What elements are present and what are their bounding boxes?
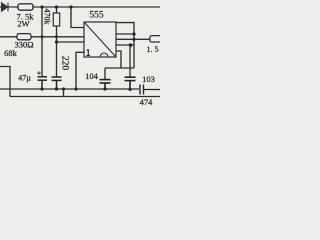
svg-text:330Ω: 330Ω bbox=[14, 40, 33, 50]
resistor R4 1.5k (clipped) bbox=[150, 36, 162, 42]
label R1 value 7.5k bbox=[17, 12, 35, 22]
svg-text:474: 474 bbox=[140, 97, 154, 107]
node junction y45 bbox=[129, 43, 133, 47]
label U1 555 bbox=[89, 11, 104, 21]
wire left edge net to lower rail bbox=[0, 67, 10, 97]
svg-text:103: 103 bbox=[142, 74, 155, 84]
wire control net down to C3 bbox=[104, 68, 106, 79]
node dot C1 ground bbox=[40, 87, 43, 90]
IC U1 555 timer box bbox=[84, 22, 116, 57]
wire output top (IC corner right then down) bbox=[116, 23, 134, 68]
node dot drop ground bbox=[62, 87, 65, 90]
label C5 value 474 bbox=[140, 97, 154, 107]
label C1 polarity + bbox=[37, 71, 41, 75]
wire ground drop x63 bbox=[63, 89, 65, 97]
wire ground pin stub (IC to x76) bbox=[76, 52, 84, 89]
wire lower rail bbox=[10, 96, 160, 98]
wire vertical V2 top (rail to R2) bbox=[56, 7, 58, 13]
wire vertical B x130 (y45 to C4) bbox=[129, 45, 131, 77]
diode D1 bbox=[2, 3, 9, 11]
capacitor C1 47u plates bbox=[38, 77, 48, 89]
wire vertical V2 bottom (R2 down to C2) bbox=[56, 26, 58, 77]
wire top supply rail bbox=[0, 6, 160, 8]
capacitor C2 220 plates bbox=[52, 77, 62, 89]
node junction threshold wire x56 bbox=[55, 40, 58, 43]
label 68k (offscreen resistor) bbox=[4, 48, 18, 58]
label C4 value 103 bbox=[142, 74, 155, 84]
svg-text:470k: 470k bbox=[43, 9, 52, 25]
label C3 value 104 bbox=[85, 71, 99, 81]
label C2 value 220 (vertical) bbox=[60, 56, 70, 71]
resistor R2 470k bbox=[53, 13, 59, 26]
capacitor C4 103 plates bbox=[125, 77, 136, 89]
node C junction bbox=[69, 5, 72, 8]
wire pin right y45 bbox=[116, 44, 134, 46]
svg-text:1. 5: 1. 5 bbox=[147, 45, 159, 54]
resistor R3 330 bbox=[17, 34, 31, 40]
node dot C3 ground bbox=[103, 87, 106, 90]
wire control net horizontal y68 bbox=[105, 67, 134, 69]
svg-text:104: 104 bbox=[85, 71, 99, 81]
node junction 330 wire x42 bbox=[40, 35, 43, 38]
label R3 value 330ohm bbox=[14, 40, 33, 50]
svg-text:2W: 2W bbox=[17, 19, 29, 29]
svg-text:68k: 68k bbox=[4, 48, 18, 58]
wire 330 net (left edge to pin) bbox=[0, 36, 84, 38]
node junction y39 bbox=[132, 38, 135, 41]
node dot C2 ground bbox=[55, 87, 58, 90]
node junction trigger wire x56 bbox=[55, 35, 58, 38]
node junction y34 bbox=[132, 32, 135, 35]
label R2 value 470k (vertical) bbox=[43, 9, 52, 25]
label C1 value 47u bbox=[18, 74, 31, 83]
wire vertical V1 (node A down to C1) bbox=[41, 7, 43, 76]
svg-text:47µ: 47µ bbox=[18, 74, 31, 83]
wire pin right y34 bbox=[116, 33, 134, 35]
resistor R1 7.5k 2W bbox=[18, 4, 33, 10]
wire pin right stub y51 bbox=[116, 51, 121, 68]
node dot C4 ground bbox=[128, 88, 131, 91]
capacitor C5 474 series plates bbox=[140, 85, 160, 95]
label R4 value 1.5 bbox=[147, 45, 159, 54]
node dot pin1 ground bbox=[74, 87, 77, 90]
wire ground rail bbox=[0, 88, 139, 90]
label U1 pin 1 bbox=[87, 49, 91, 55]
node B junction bbox=[55, 5, 58, 8]
wire pin right y39 to R4 bbox=[116, 38, 150, 40]
label R1 power 2W bbox=[17, 19, 29, 29]
svg-text:555: 555 bbox=[89, 11, 104, 21]
capacitor C3 104 plates bbox=[100, 80, 111, 89]
wire vertical V3 (rail to pin8) bbox=[71, 7, 84, 28]
svg-text:220: 220 bbox=[60, 56, 70, 71]
wire trigger pin (x56 to IC) bbox=[57, 41, 85, 43]
node A junction bbox=[40, 5, 43, 8]
